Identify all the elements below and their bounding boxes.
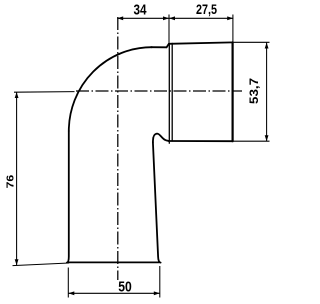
svg-text:27,5: 27,5 [196,1,217,17]
extension line 50 left [67,268,69,298]
body top edge [151,46,167,48]
extension line 53,7 bottom [228,140,270,142]
dimension line 34 [117,17,169,19]
svg-text:34: 34 [134,2,148,19]
extension line 50 right [159,266,161,298]
svg-text:76: 76 [6,174,17,188]
arrow 34 right [163,16,169,20]
arrow 53,7 top [265,43,269,49]
dimension line 53,7 [266,43,268,142]
arrow 76 bottom [15,259,19,265]
pipe bottom edge [68,261,160,263]
arrow 34 left [117,16,123,20]
socket entry line 2 [171,43,173,141]
socket bottom edge [169,140,233,142]
arrow 27,5 right [227,16,233,20]
arrow 53,7 bottom [265,135,269,141]
dimension line 27,5 [169,17,233,19]
extension line at socket shoulder [168,15,170,45]
pipe right edge [153,142,161,262]
arrow 50 left [68,291,74,295]
outer bend arc [69,47,152,131]
arrow 50 right [154,291,160,295]
socket entry line 1 [168,44,170,143]
extension line at socket mouth top [232,15,234,43]
svg-text:53,7: 53,7 [247,78,261,104]
vertical centerline of pipe [117,17,119,280]
pipe left edge [67,131,69,263]
extension line 53,7 top [234,41,270,43]
inner corner fillet [153,134,169,143]
socket top edge [169,42,233,43]
arrow 27,5 left [169,16,175,20]
shoulder chamfer top [167,44,169,48]
svg-text:50: 50 [118,278,132,295]
dimension line 76 [16,92,18,265]
dimension line 50 [68,292,160,294]
horizontal centerline of socket [76,90,242,92]
extension line 76 top [14,91,75,94]
arrow 76 top [15,92,19,98]
socket mouth face [232,42,234,141]
extension line 76 bottom [13,263,70,266]
